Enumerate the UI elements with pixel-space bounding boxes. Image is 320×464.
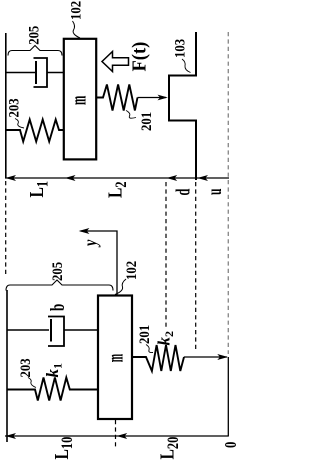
svg-text:y: y <box>80 239 101 247</box>
label L20 <box>156 437 182 460</box>
label 203 (top) <box>7 98 23 117</box>
label 203 (bottom) <box>18 358 34 377</box>
label 102 (top) <box>69 1 85 20</box>
label d <box>171 188 194 195</box>
dim arrowhead at wall (bottom) <box>5 433 16 439</box>
wire dashed extension of wall line <box>5 181 7 277</box>
arrowhead at reference line <box>217 354 228 360</box>
damper rod right (bottom) <box>64 329 98 331</box>
svg-text:203: 203 <box>18 358 34 377</box>
dashed extension at d-left <box>165 182 167 327</box>
label k2 <box>155 331 177 346</box>
wire from spring k2 to reference <box>184 356 227 358</box>
label b <box>46 304 69 311</box>
mass box m (bottom) 102 <box>98 296 132 420</box>
leader squiggle 203 (top) <box>15 119 24 129</box>
leader squiggle 102 (top) <box>73 21 81 38</box>
force arrow F(t) <box>102 52 129 72</box>
label m (bottom) <box>102 354 128 363</box>
structure 103 outline <box>169 32 196 180</box>
label y <box>80 239 101 247</box>
svg-text:F(t): F(t) <box>129 42 151 72</box>
spring k2 201 (bottom) <box>132 345 184 371</box>
dim arrowhead at wall <box>5 175 16 181</box>
dimension line (bottom) <box>5 435 228 437</box>
label 205 (top) <box>26 26 42 45</box>
leader squiggle 102 (bottom) <box>115 279 126 295</box>
label L1 <box>25 181 51 198</box>
wall W1 <box>5 33 7 179</box>
dim arrowhead at box center (bottom) <box>117 433 128 439</box>
reference vertical wire (solid, right) <box>227 357 229 437</box>
damper cylinder (bottom) <box>48 317 64 347</box>
label L10 <box>50 437 76 460</box>
label 102 (bottom) <box>124 261 140 280</box>
leader squiggle 203 (bottom) <box>28 378 36 388</box>
gray dashed reference line 0 <box>227 32 229 354</box>
wire from spring to arrow <box>138 97 167 99</box>
label F(t) <box>129 42 151 72</box>
label L2 <box>104 181 130 198</box>
label m (top) <box>65 95 90 105</box>
mass box m (top) 102 <box>64 39 96 160</box>
brace for 205 (bottom) <box>6 280 113 291</box>
svg-text:0: 0 <box>222 442 240 448</box>
svg-text:m: m <box>102 354 128 363</box>
dimension line (top) <box>5 177 229 179</box>
arrowhead at structure 103 <box>158 95 168 101</box>
damper cylinder (top) <box>34 58 48 87</box>
damper rod left (top damper 205) <box>6 72 35 74</box>
svg-text:201: 201 <box>139 112 155 131</box>
dashed extension at structure face <box>195 182 197 352</box>
label 205 (bottom) <box>50 262 66 281</box>
label 103 <box>173 39 189 58</box>
svg-text:b: b <box>46 304 69 311</box>
wall W2 (bottom) <box>6 290 8 442</box>
leader squiggle 201 (bottom) <box>146 345 153 353</box>
y axis arrow <box>81 231 118 295</box>
label 201 (bottom) <box>137 325 153 344</box>
svg-text:d: d <box>171 188 194 195</box>
spring k1 203 (bottom) <box>7 378 98 401</box>
y axis arrowhead <box>79 228 90 234</box>
svg-text:203: 203 <box>7 98 23 117</box>
label 0 <box>222 442 240 448</box>
svg-text:102: 102 <box>69 1 85 20</box>
svg-text:103: 103 <box>173 39 189 58</box>
damper rod left (bottom damper b) <box>7 329 49 331</box>
label 201 (top) <box>139 112 155 131</box>
damper piston plate (top) <box>35 61 37 84</box>
brace for 205 (top) <box>8 46 62 56</box>
dim arrowhead at d-left <box>167 175 178 181</box>
dim arrowhead at box edge <box>65 175 76 181</box>
svg-text:u: u <box>202 189 226 195</box>
svg-text:205: 205 <box>50 262 66 281</box>
label u <box>202 189 226 195</box>
damper piston plate (bottom) <box>50 319 52 342</box>
damper rod right (top) <box>47 72 64 74</box>
label k1 <box>43 363 65 378</box>
dim arrowhead at d-right <box>197 175 208 181</box>
svg-text:201: 201 <box>137 325 153 344</box>
leader squiggle 201 (top) <box>126 111 136 119</box>
svg-text:m: m <box>65 95 90 105</box>
leader squiggle 103 <box>182 59 191 73</box>
spring 203 (top) <box>6 120 64 142</box>
svg-text:102: 102 <box>124 261 140 280</box>
spring 201 (top) <box>96 85 138 111</box>
svg-text:205: 205 <box>26 26 42 45</box>
dashed extension box center <box>115 420 117 447</box>
